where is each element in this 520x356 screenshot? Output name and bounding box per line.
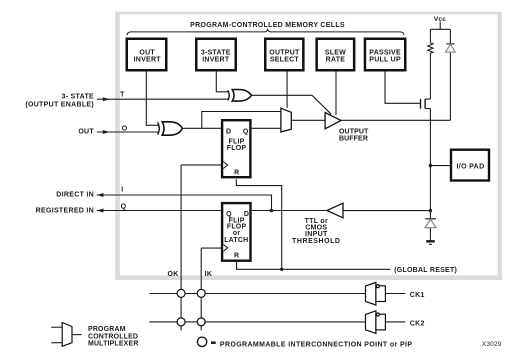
svg-text:FLOP: FLOP xyxy=(227,145,247,152)
svg-text:IK: IK xyxy=(205,271,213,278)
svg-text:(GLOBAL RESET): (GLOBAL RESET) xyxy=(394,267,457,274)
svg-text:INVERT: INVERT xyxy=(134,57,162,64)
svg-text:CK1: CK1 xyxy=(410,292,425,299)
svg-text:I: I xyxy=(121,186,123,193)
svg-text:O: O xyxy=(122,125,128,132)
svg-text:DIRECT IN: DIRECT IN xyxy=(56,191,94,198)
svg-text:INVERT: INVERT xyxy=(202,57,230,64)
svg-text:PULL UP: PULL UP xyxy=(369,57,401,64)
svg-text:or: or xyxy=(233,230,240,237)
svg-text:RATE: RATE xyxy=(326,57,346,64)
svg-text:OK: OK xyxy=(168,271,179,278)
svg-text:(OUTPUT ENABLE): (OUTPUT ENABLE) xyxy=(25,101,94,108)
svg-text:LATCH: LATCH xyxy=(224,237,248,244)
svg-text:3- STATE: 3- STATE xyxy=(62,94,95,101)
svg-text:R: R xyxy=(234,170,239,177)
svg-text:T: T xyxy=(120,92,125,99)
svg-text:Q: Q xyxy=(121,204,127,211)
svg-text:Q: Q xyxy=(243,129,249,136)
svg-text:Vcc: Vcc xyxy=(434,16,446,23)
svg-text:X3029: X3029 xyxy=(482,341,502,348)
svg-text:PROGRAMMABLE INTERCONNECTION P: PROGRAMMABLE INTERCONNECTION POINT or PI… xyxy=(220,341,413,348)
svg-text:D: D xyxy=(226,129,231,136)
svg-text:D: D xyxy=(244,211,249,218)
svg-text:CONTROLLED: CONTROLLED xyxy=(88,333,138,340)
svg-text:BUFFER: BUFFER xyxy=(339,136,368,143)
svg-text:OUTPUT: OUTPUT xyxy=(339,128,369,135)
svg-text:PROGRAM-CONTROLLED MEMORY CELL: PROGRAM-CONTROLLED MEMORY CELLS xyxy=(190,22,345,29)
svg-text:PROGRAM: PROGRAM xyxy=(88,326,126,333)
svg-text:OUT: OUT xyxy=(78,129,94,136)
svg-text:SELECT: SELECT xyxy=(270,57,300,64)
svg-text:MULTIPLEXER: MULTIPLEXER xyxy=(88,341,139,348)
svg-text:REGISTERED IN: REGISTERED IN xyxy=(36,208,94,215)
svg-text:R: R xyxy=(234,252,239,259)
svg-text:CK2: CK2 xyxy=(410,320,425,327)
svg-text:I/O PAD: I/O PAD xyxy=(457,163,485,170)
svg-text:THRESHOLD: THRESHOLD xyxy=(292,238,341,245)
